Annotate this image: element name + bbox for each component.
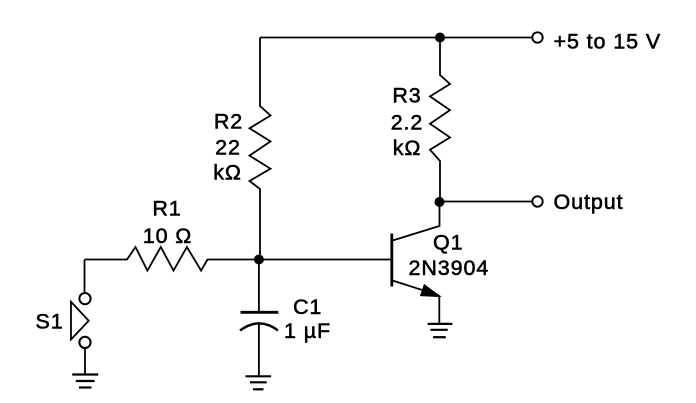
svg-text:Q1: Q1 [433, 231, 463, 255]
svg-text:C1: C1 [293, 295, 322, 319]
svg-text:10 Ω: 10 Ω [143, 224, 193, 248]
svg-text:22: 22 [215, 136, 241, 160]
svg-text:kΩ: kΩ [393, 136, 422, 160]
svg-text:kΩ: kΩ [213, 161, 242, 185]
svg-text:S1: S1 [36, 309, 64, 333]
svg-text:1 µF: 1 µF [284, 319, 331, 343]
svg-text:2N3904: 2N3904 [409, 256, 490, 280]
svg-text:R3: R3 [392, 84, 421, 108]
svg-text:+5 to 15 V: +5 to 15 V [554, 30, 662, 54]
svg-text:R2: R2 [214, 110, 243, 134]
svg-text:Output: Output [554, 190, 624, 214]
svg-text:2.2: 2.2 [391, 111, 424, 135]
svg-text:R1: R1 [152, 197, 181, 221]
